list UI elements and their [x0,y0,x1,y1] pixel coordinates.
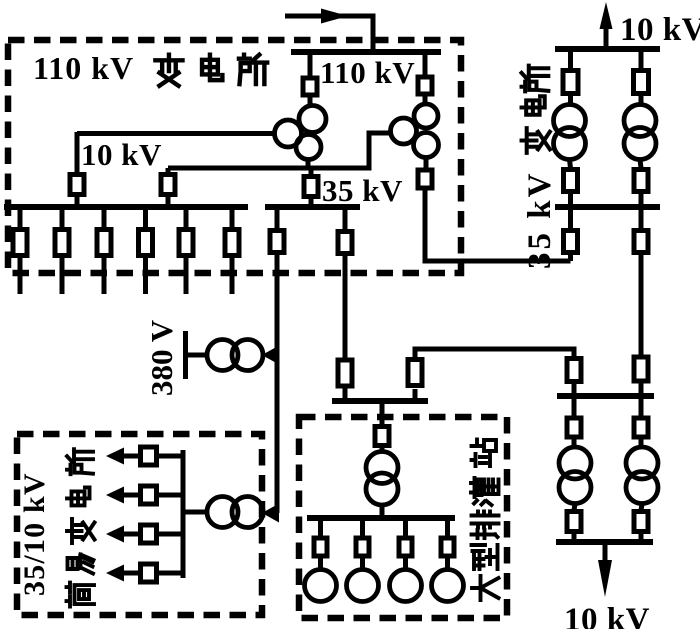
wire: join incoming line [568,253,573,262]
bus: simple substation vertical bus [181,450,186,578]
wire: outgoing feeder 1 [124,454,183,459]
breaker lower right bottom [634,512,648,532]
breaker below T1 (35 kV) [304,177,318,197]
svg-text:35 kV: 35 kV [322,173,403,208]
svg-text:110 kV: 110 kV [320,55,415,90]
breaker feeder 4 [139,230,153,256]
breaker lower left bottom [567,512,581,532]
wire: 10 kV feeder 6 [230,207,235,229]
wire: branch to 380 V transformer [266,353,277,358]
wire: to lower bus right [639,381,644,396]
transformer: pumping station 35/10 kV [366,452,398,506]
motor M2 (pump) [347,570,379,602]
arrowhead 10 kV down [598,560,612,597]
wire: long vertical right [639,253,644,356]
wire: to middle bus right [639,192,644,208]
wire: lower bus down left [572,396,577,417]
wire: long vertical to rural loads [275,253,280,513]
transformer: 35/10 kV simple substation [207,497,263,528]
label chars: 变电所 (rotated right column) [522,66,550,153]
wire: to transformer lower left [572,437,577,446]
label chars: 大型排灌站 (rotated) [471,440,499,601]
wire: feeder 6 tail [230,256,235,294]
breaker feeder 3 [141,525,157,543]
wire: to bottom bus left [572,532,577,543]
wire: outgoing feeder 4 [124,571,183,576]
wire: breaker to T2 [423,94,428,103]
wire: to pumping station bus [343,387,348,401]
breaker lower right feed [634,357,648,381]
wire: to lower bus [572,382,577,396]
arrowhead feeder 4 [106,565,124,582]
breaker outgoing right [634,231,648,253]
arrowhead into 380 V transformer [262,346,279,365]
transformer T2 (110/35 kV three-winding) [391,104,439,158]
label char: 电 [202,55,222,80]
wire: transformer to breaker left [570,160,571,169]
breaker sending end [338,232,352,254]
motor M4 (pump) [432,570,464,602]
wire: 10 kV feeder 3 [102,207,107,229]
wire: motor feeder 2 [360,518,365,537]
breaker on tie line [408,360,422,386]
wire: to motor 4 [445,556,450,568]
wire: breaker to 35 kV bus [309,197,314,207]
arrowhead feeder 3 [106,526,124,543]
arrowhead on incoming line [321,9,348,24]
breaker feeder 3 [97,230,111,256]
breaker left link [161,175,175,195]
breaker incoming 35 kV [564,231,578,253]
bus: 110 kV busbar [291,49,441,55]
wire: 10 kV feeder 5 [184,207,189,229]
bus: 10 kV busbar left [4,204,248,210]
breaker below T2 [418,170,432,188]
wire: 10 kV outgoing up [604,29,609,49]
wire: left branch from top bus [568,49,573,69]
wire: motor feeder 1 [318,518,323,537]
label: 380 V (rotated) [144,319,179,396]
breaker left upper [563,71,578,94]
wire: 10 kV feeder 2 [60,207,65,229]
breaker feeder 6 [225,230,239,256]
breaker lower right upper [634,418,648,437]
breaker QF above T2 [418,77,432,94]
wire: to transformer lower right [639,437,644,446]
wire: to bottom bus right [639,532,644,543]
breaker lower left upper [567,418,581,437]
wire: link to breaker below T1 [309,170,314,175]
breaker left lower [564,170,578,192]
label chars: 简易变电所 (rotated) [67,449,95,606]
svg-text:35/10 kV: 35/10 kV [18,472,51,596]
wire: transformer to motor bus [380,506,385,518]
wire: outgoing feeder 3 [124,532,183,537]
breaker motor 3 [399,538,412,556]
wire: transformer to breaker lower right [641,505,642,511]
bus: 35 kV busbar [265,204,360,210]
arrowhead into simple substation transformer [262,504,279,523]
wire: link down-leg left [166,168,171,173]
wire: bus to transformer [183,510,205,515]
breaker feeder 5 [179,230,193,256]
bus: lower 35 kV busbar [557,393,654,399]
wire: into pumping station [380,401,385,425]
breaker feeder 2 [141,486,157,504]
wire: to middle bus left [568,192,573,208]
wire: T1 10 kV output, horizontal [77,131,276,136]
wire: transformer to breaker right [640,160,641,169]
bus: pumping station 35 kV bus [332,398,428,404]
svg-text:35 kV: 35 kV [522,171,558,269]
wire: 35 kV link T1-T2 [168,133,392,168]
wire: to 10 kV bus [166,195,171,207]
breaker motor 4 [441,538,454,556]
wire: feeder 4 tail [143,256,148,294]
wire: right branch from top bus [639,49,644,69]
wire: line to pumping station bus [343,254,348,358]
svg-text:380 V: 380 V [144,319,179,396]
transformer: 35/10 kV right upper [624,105,656,160]
dashed box: 35/10 kV simple substation [17,434,262,615]
bus: 35 kV busbar middle right [555,204,660,210]
wire: down to breaker [75,132,80,172]
wire: 35 kV bus drop right [343,207,348,231]
breaker feeder 4 [141,564,157,582]
wire: bus to breaker T1 [308,52,313,76]
wire: 35 kV outgoing line to 35 kV substation [425,188,571,261]
label char: 变 [155,55,182,86]
wire: T2 bottom to breaker [424,159,429,168]
breaker on left drop [270,231,284,253]
wire: incoming 110 kV line [285,16,373,52]
wire: tie line to 35 kV substation [415,349,574,359]
breaker feeder 2 [55,230,69,256]
wire: T1 bottom to 35 kV link [306,161,311,170]
wire: 10 kV feeder 4 [143,207,148,229]
dashed box: 110 kV substation [8,40,461,273]
label: 35 kV (rotated, right column) [522,171,558,269]
transformer: 35/10 kV left upper [554,105,586,160]
wire: stub to transformer [186,353,206,358]
breaker tie line right end [567,359,581,382]
wire: motor feeder 3 [403,518,408,537]
wire: breaker to transformer left [568,94,573,106]
wire: breaker to transformer [380,446,385,451]
breaker right upper [634,71,649,94]
wire: middle bus down right [639,207,644,229]
svg-text:10 kV: 10 kV [564,602,650,629]
wire: outgoing feeder 2 [124,493,183,498]
bus: pumping station LV bus [307,515,455,521]
wire: 10 kV outgoing down [603,542,608,561]
transformer: 35/10 kV left lower [559,447,591,504]
breaker motor 1 [314,538,327,556]
wire: bus to breaker T2 [423,52,428,76]
wire: lower bus down right [639,396,644,417]
svg-text:10 kV: 10 kV [81,137,162,172]
wire: breaker to 10 kV bus [75,195,80,207]
svg-text:110 kV: 110 kV [33,50,134,86]
transformer T1 (110/35/10 kV three-winding) [275,106,327,160]
breaker pumping station [375,427,389,446]
breaker feeder 1 [141,447,157,465]
wire: transformer to breaker lower left [574,505,575,511]
breaker right lower [634,170,648,192]
wire: breaker to transformer right [639,94,644,106]
breaker on 10 kV output [70,175,84,195]
label: 35/10 kV (rotated) [18,472,51,596]
dashed box: large pumping station [299,417,507,618]
wire: feeder 3 tail [102,256,107,294]
wire: middle bus down left [568,207,573,229]
arrowhead feeder 2 [106,487,124,504]
breaker receiving end [338,360,352,386]
bus: 10 kV busbar bottom right [556,539,653,545]
wire: feeder 1 tail [18,256,23,294]
wire: 10 kV feeder 1 [18,207,23,229]
wire: motor feeder 4 [445,518,450,537]
wire: to motor 1 [318,556,323,568]
wire: breaker to T1 [308,95,313,105]
arrowhead 10 kV up [600,2,613,29]
wire: to motor 3 [403,556,408,568]
label char: 所 [239,55,267,84]
transformer: 35/0.38 kV distribution [207,340,263,371]
wire: feeder 5 tail [184,256,189,294]
svg-text:10 kV: 10 kV [620,12,700,48]
motor M1 (pump) [305,570,337,602]
arrowhead feeder 1 [106,448,124,465]
motor M3 (pump) [390,570,422,602]
wire: feeder 2 tail [60,256,65,294]
wire: 380 V busbar stub [183,331,188,379]
breaker feeder 1 [13,230,27,256]
transformer: 35/10 kV right lower [626,447,658,504]
breaker motor 2 [356,538,369,556]
wire: tie line up from bus [413,389,418,401]
breaker QF above T1 [303,78,317,95]
wire: 35 kV bus drop left [275,207,280,230]
wire: to motor 2 [360,556,365,568]
bus: 10 kV busbar top right [555,46,660,52]
